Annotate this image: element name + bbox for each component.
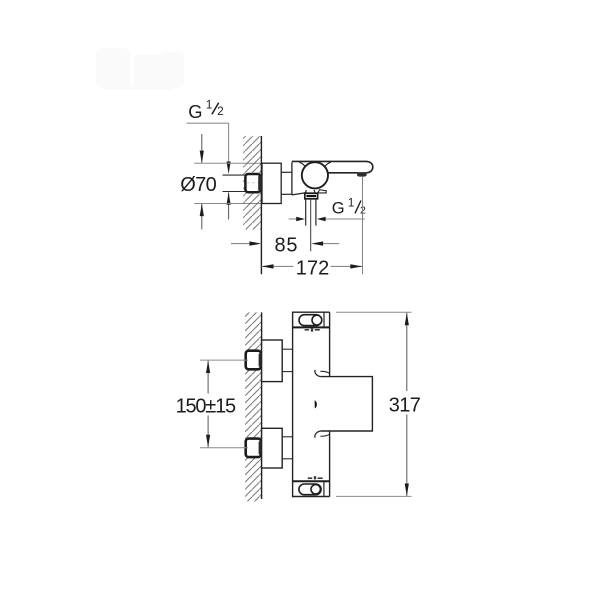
thermostat body (front) (293, 312, 330, 498)
union nut (side view) (245, 174, 260, 192)
thread bottom union (259, 442, 262, 455)
body bottom edge (292, 193, 305, 195)
label G1/2 (top) (188, 99, 223, 121)
svg-text:1: 1 (206, 99, 212, 111)
fillet left of cartridge cap (299, 162, 306, 167)
union nut bottom (246, 439, 261, 458)
mixer block right (320, 377, 372, 431)
inner arc bottom (320, 434, 329, 436)
center dash through top union (243, 359, 265, 361)
pipe stub escutcheon to body (281, 172, 292, 194)
svg-text:317: 317 (389, 394, 421, 416)
pipe stub top (282, 349, 292, 371)
svg-text:2: 2 (217, 106, 223, 118)
fitting groove (306, 195, 316, 197)
top shower connection capsule (299, 315, 321, 326)
dimension 85 (231, 243, 339, 245)
small marks below top cap (305, 328, 320, 331)
wall hatch (lower) (245, 312, 262, 501)
S-hook top of block (315, 370, 320, 377)
spout outlet (aerator) (357, 172, 367, 177)
thread top union (259, 354, 262, 367)
arrow up to pipe thread bottom (227, 192, 231, 219)
bottom capsule cap circle (311, 485, 320, 494)
S-hook bottom of block (315, 431, 320, 438)
outlet fitting (305, 193, 318, 199)
svg-text:150±15: 150±15 (176, 395, 237, 417)
fillet right of cartridge cap (324, 162, 331, 167)
pipe center line (310, 199, 312, 252)
arrow down to pipe thread (227, 162, 231, 175)
svg-text:85: 85 (275, 235, 298, 257)
dimension Ø70 vertical line with arrows (201, 134, 203, 229)
top capsule cap circle (312, 315, 322, 325)
spout bottom line (327, 172, 357, 174)
dimension G1/2 (bottom thread) arrows (289, 218, 365, 220)
body tab right of fitting (318, 190, 326, 193)
svg-text:172: 172 (296, 258, 330, 280)
svg-text:G: G (188, 101, 202, 122)
svg-text:G: G (332, 199, 345, 217)
svg-text:2: 2 (360, 205, 366, 217)
dimension 150±15 (200, 360, 248, 448)
bottom cap right separator (323, 481, 325, 496)
top cap separator (293, 326, 330, 328)
svg-text:Ø70: Ø70 (180, 174, 217, 196)
neck under cartridge (305, 190, 315, 193)
faint watermark top-left (96, 48, 184, 90)
dimension 172 (262, 265, 363, 267)
top cap right separator (323, 312, 325, 327)
label G1/2 (bottom) (332, 198, 366, 218)
eco button mark (315, 400, 317, 408)
escutcheon top (front) (262, 340, 283, 382)
escutcheon (side view) (262, 163, 281, 203)
wall hatch (upper) (243, 136, 261, 230)
extension lines of Ø70 (escutcheon top/bottom) (194, 163, 261, 203)
center dash through bottom union (243, 447, 265, 449)
union nut top (246, 351, 261, 370)
bottom shower connection capsule (299, 484, 321, 495)
faucet body left edge (291, 162, 293, 195)
wall face line (upper) (260, 136, 262, 274)
thread between nut and wall (258, 176, 262, 190)
svg-text:1: 1 (348, 198, 354, 210)
shower outlet pipe (306, 199, 316, 226)
cartridge cap circle (302, 162, 328, 188)
pipe stub bottom (282, 437, 292, 459)
extension line from spout outlet (362, 177, 364, 274)
concealed supply pipe in wall (223, 175, 246, 191)
bottom cap separator (293, 480, 330, 482)
inner arc top (320, 371, 329, 373)
nut centerline dash (247, 182, 260, 184)
spout rounded end (366, 161, 373, 172)
small marks above bottom cap (308, 476, 323, 479)
wall face line (lower) (261, 312, 263, 499)
faucet top line (lever/spout top) (292, 160, 367, 162)
dimension 317 (336, 312, 412, 496)
leader line from G1/2 (top) (187, 123, 230, 165)
escutcheon bottom (front) (262, 428, 283, 468)
